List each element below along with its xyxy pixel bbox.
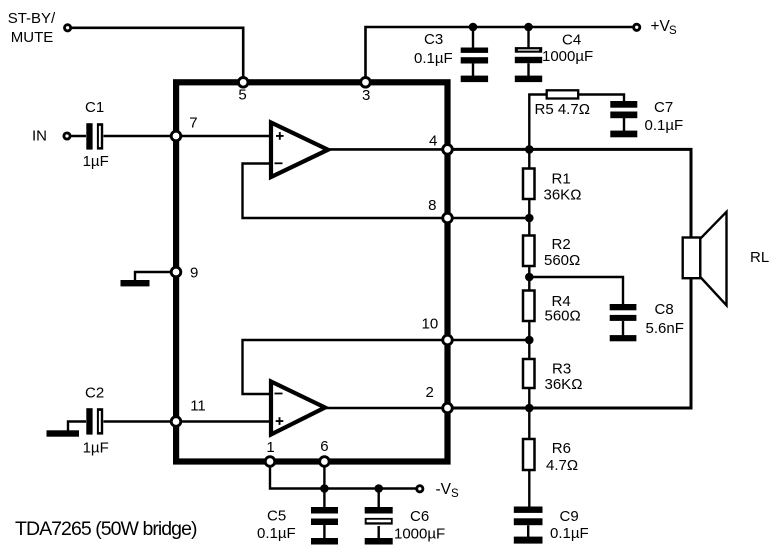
terminal IN [64,133,70,139]
label TDA7265 (50W bridge) [15,518,197,540]
pin 1 [265,457,275,467]
resistor R3 [523,359,535,388]
svg-text:R5 4.7Ω: R5 4.7Ω [535,101,590,118]
capacitor C1 [86,123,103,149]
wire op-amp B output to pin 2 [325,407,448,410]
wire pin 10 to R4/R3 junction [448,339,530,341]
pin 3 [361,78,371,88]
svg-text:MUTE: MUTE [11,29,54,46]
pin 9 [171,267,181,277]
wire C4 stem [527,27,529,48]
capacitor C3 [461,48,488,83]
svg-text:C5: C5 [267,508,286,525]
label pin 1 [266,439,274,456]
terminal -Vs [417,486,423,492]
svg-text:9: 9 [190,265,198,282]
pin 7 [171,131,181,141]
label pin 6 [320,438,328,455]
resistor R4 [523,291,535,322]
svg-text:S: S [451,488,459,500]
svg-text:R3: R3 [552,361,571,378]
label C7 0.1uF [645,99,684,134]
pin 11 [171,417,181,427]
svg-text:10: 10 [422,316,439,333]
svg-text:TDA7265 (50W bridge): TDA7265 (50W bridge) [15,518,197,540]
svg-text:R6: R6 [552,440,571,457]
svg-text:3: 3 [362,87,370,104]
svg-text:0.1µF: 0.1µF [257,525,296,542]
svg-text:1µF: 1µF [83,439,109,456]
wire C2 to pin 11 [104,420,177,422]
op-amp U1A triangle [271,123,328,178]
label pin 10 [422,316,439,333]
svg-text:4: 4 [429,133,437,150]
svg-text:-V: -V [436,481,452,498]
pin 10 [443,335,453,345]
terminal ST-BY/MUTE [65,25,71,31]
label pin 8 [428,197,436,214]
wire R6 stems [528,408,530,507]
svg-text:6: 6 [320,438,328,455]
svg-text:5.6nF: 5.6nF [646,320,684,337]
label IN [32,128,47,145]
wire C1 to pin 7 [104,135,177,137]
label pin 9 [190,265,198,282]
node junction R4/R3/pin10 [525,336,534,345]
wire op-amp B feedback to pin 10 [243,340,448,394]
wire R2 stems [528,218,530,277]
capacitor C5 [311,507,338,545]
svg-text:C3: C3 [424,31,443,48]
svg-text:IN: IN [32,128,47,145]
node junction pin4/R5/R1 [525,145,534,154]
label R4 560ohm [545,293,581,324]
svg-text:ST-BY/: ST-BY/ [8,10,56,27]
svg-text:C6: C6 [410,508,429,525]
svg-text:1: 1 [266,439,274,456]
wire C6 stem [378,489,380,508]
wire C5 stem [323,489,325,508]
node junction C5/-Vs bus [320,484,329,493]
wire pin 9 to ground [135,272,176,281]
label pin 7 [189,115,197,132]
terminal +Vs [634,24,640,30]
speaker RL [683,212,727,305]
svg-text:C9: C9 [560,508,579,525]
pin 4 [443,145,453,155]
wire pin 2 to speaker [448,278,692,408]
capacitor C9 [514,507,543,544]
label R3 36Kohm [545,361,583,394]
capacitor C6 (electrolytic) [365,507,393,545]
wire R3 stems [528,340,530,408]
label -Vs [436,481,460,500]
pin 5 [238,78,248,88]
svg-text:C2: C2 [85,384,104,401]
label R2 560ohm [544,236,580,269]
node junction R1/R2/pin8 [525,214,534,223]
label RL [750,249,769,266]
label C9 0.1uF [550,508,589,542]
pin 6 [320,457,330,467]
node junction C6/-Vs bus [374,484,383,493]
wire R5 to C7 [578,95,624,102]
label pin 2 [426,384,434,401]
wire R5 branch [529,95,547,150]
node junction R3/R6/pin2 [525,404,534,413]
resistor R2 [523,236,535,267]
pin 2 [443,403,453,413]
svg-text:R2: R2 [552,236,571,253]
wire C3 stem [472,27,474,48]
svg-text:0.1µF: 0.1µF [645,117,684,134]
label C1 1uF [83,99,109,170]
capacitor C4 (electrolytic) [515,47,542,82]
label pin 5 [238,87,246,104]
wire pin 1 / pin 6 to -Vs bus [270,462,416,489]
wire op-amp A output to pin 4 [327,148,448,151]
wire ST-BY/MUTE to pin 5 [68,28,244,83]
wire pin 4 to speaker [448,149,692,237]
svg-text:C4: C4 [562,31,581,48]
node junction C3/+Vs rail [469,23,478,32]
svg-text:36KΩ: 36KΩ [544,186,582,203]
label C2 1uF [83,384,109,456]
label C4 1000uF [542,31,593,64]
wire pin 11 to op-amp B input [176,420,269,422]
capacitor C2 [86,408,103,434]
svg-text:5: 5 [238,87,246,104]
wire pin 7 to op-amp A input [176,135,269,137]
svg-text:1000µF: 1000µF [542,48,593,65]
label pin 3 [362,87,370,104]
wire pin 8 to R1/R2 junction [448,217,530,220]
svg-text:0.1µF: 0.1µF [550,525,589,542]
resistor R5 [547,90,579,98]
label R5 4.7ohm [535,101,590,118]
op-amp U1B triangle [271,382,325,435]
node junction C4/+Vs rail [524,23,533,32]
capacitor C8 [610,304,637,341]
label +Vs [651,18,678,37]
label C3 0.1uF [414,31,453,67]
svg-text:0.1µF: 0.1µF [414,50,453,67]
capacitor C7 [610,101,637,137]
svg-text:C7: C7 [654,99,673,116]
svg-text:4.7Ω: 4.7Ω [546,457,578,474]
svg-text:36KΩ: 36KΩ [545,376,583,393]
label pin 4 [429,133,437,150]
label ST-BY/MUTE [8,10,56,46]
label C5 0.1uF [257,508,296,543]
svg-text:C8: C8 [655,301,674,318]
svg-text:11: 11 [190,398,206,415]
label C6 1000uF [394,508,445,543]
svg-text:8: 8 [428,197,436,214]
svg-text:C1: C1 [85,99,104,116]
label R6 4.7ohm [546,440,578,474]
svg-text:R1: R1 [552,171,571,188]
wire +Vs rail from pin 3 [366,27,633,82]
pin 8 [443,213,453,223]
svg-text:7: 7 [189,115,197,132]
label C8 5.6nF [646,301,684,337]
resistor R6 [523,439,535,470]
label pin 11 [190,398,206,415]
label R1 36Kohm [544,171,582,204]
IC U1 TDA7265 outline [176,82,447,461]
resistor R1 [523,169,535,200]
wire junction to C8 [529,277,623,305]
wire IN to C1 [67,135,86,137]
svg-text:1000µF: 1000µF [394,525,445,542]
svg-text:560Ω: 560Ω [545,307,581,324]
svg-text:RL: RL [750,249,769,266]
wire op-amp A feedback to pin 8 [243,164,448,219]
svg-text:2: 2 [426,384,434,401]
wire R1 stems [528,149,530,218]
svg-text:560Ω: 560Ω [544,252,580,269]
ground (pin 9) [121,280,150,286]
svg-text:+V: +V [651,18,671,35]
svg-text:1µF: 1µF [83,153,109,170]
ground (C2) [47,422,87,437]
wire R4 stems [528,277,530,340]
svg-text:S: S [669,25,677,37]
node junction R2/R4/C8 [525,273,534,282]
